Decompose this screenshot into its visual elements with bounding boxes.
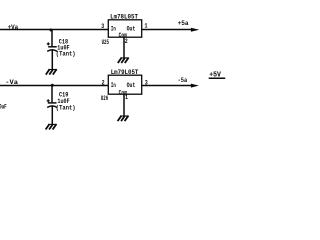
junction on +Va wire [50, 29, 53, 32]
wire C19 to ground [51, 106, 53, 124]
svg-text:3: 3 [101, 23, 104, 30]
wire U25 Com to ground [123, 37, 125, 58]
wire -Va to U26 pin 2 [0, 85, 108, 87]
capacitor C18 [47, 42, 57, 51]
svg-text:2: 2 [125, 38, 128, 45]
wire C18 to ground [51, 50, 53, 69]
svg-text:2: 2 [102, 79, 105, 86]
wire +Va to U25 pin 3 [0, 29, 108, 31]
+5a arrow head [191, 28, 199, 32]
junction on -Va wire [51, 84, 54, 87]
-5a arrow head [191, 84, 199, 88]
ground (U25 Com) [118, 58, 129, 63]
svg-text:In: In [111, 25, 116, 32]
wire junction to C19 [51, 86, 53, 103]
wire U26 pin 3 to -5a arrow [142, 85, 192, 87]
svg-text:(Tant): (Tant) [56, 104, 76, 111]
svg-text:U25: U25 [102, 39, 110, 46]
svg-text:1: 1 [145, 22, 148, 29]
svg-text:Out: Out [127, 82, 136, 89]
svg-text:Out: Out [127, 25, 136, 32]
svg-text:U26: U26 [101, 95, 109, 102]
wire junction to C18 [51, 30, 53, 47]
wire U26 Com to ground [123, 94, 125, 116]
svg-text:+5a: +5a [178, 20, 189, 27]
ground (C18) [46, 69, 57, 74]
svg-text:-5a: -5a [178, 77, 188, 84]
ground (C19) [46, 124, 57, 129]
svg-text:(Tant): (Tant) [56, 51, 76, 58]
svg-text:In: In [111, 82, 116, 89]
ground (U26 Com) [118, 116, 129, 121]
svg-text:0uF: 0uF [0, 104, 7, 111]
wire U25 pin 1 to +5a arrow [142, 29, 192, 31]
wire stub under +5V [209, 77, 226, 79]
capacitor C19 [47, 99, 58, 107]
svg-text:1: 1 [125, 94, 128, 101]
